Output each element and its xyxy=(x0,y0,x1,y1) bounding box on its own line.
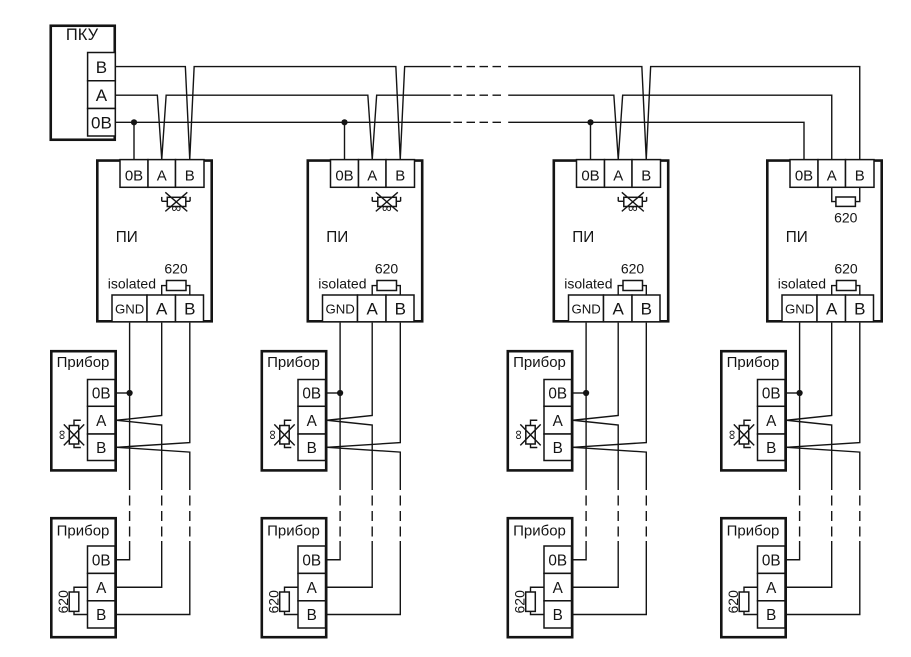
wire A from device 3.1 down xyxy=(573,420,618,490)
terminal PI1 bottom GND xyxy=(112,295,147,322)
wire B into device 2.2 xyxy=(326,541,401,615)
resistor PI3 terminator removed (crossed out, infinite) xyxy=(618,192,646,215)
svg-text:0В: 0В xyxy=(762,552,781,569)
terminal device 1.2 0V xyxy=(88,546,116,573)
svg-text:В: В xyxy=(185,167,195,184)
wire B from PI2 to device 2.1 xyxy=(327,323,400,448)
terminal PI4 bottom GND xyxy=(782,295,817,322)
svg-text:Прибор: Прибор xyxy=(57,354,110,371)
terminal PI3 top A xyxy=(605,160,633,188)
svg-text:Прибор: Прибор xyxy=(727,354,780,371)
wire A dashed section column 3 xyxy=(617,496,619,537)
svg-text:А: А xyxy=(766,413,777,430)
wire 0V stub device 2.1 xyxy=(326,392,341,394)
svg-text:В: В xyxy=(395,167,405,184)
svg-text:В: В xyxy=(395,299,406,318)
terminal device 4.1 B xyxy=(758,434,786,461)
svg-text:ПКУ: ПКУ xyxy=(66,26,99,44)
svg-text:Прибор: Прибор xyxy=(727,523,780,540)
wire B dashed section column 2 xyxy=(399,496,401,537)
wire GND/0V dashed section column 2 xyxy=(339,496,341,537)
svg-text:∞: ∞ xyxy=(724,430,739,440)
svg-text:620: 620 xyxy=(621,261,645,277)
svg-text:В: В xyxy=(641,167,651,184)
svg-text:А: А xyxy=(613,299,625,318)
svg-text:620: 620 xyxy=(164,261,188,277)
wire B from device 3.1 down xyxy=(573,447,646,490)
svg-text:0В: 0В xyxy=(125,167,143,184)
svg-text:В: В xyxy=(184,299,195,318)
wire B from PI3 to device 3.1 xyxy=(573,323,646,448)
wire 0V stub device 1.1 xyxy=(115,392,130,394)
wire 0V stub device 3.1 xyxy=(572,392,587,394)
svg-text:0В: 0В xyxy=(795,167,813,184)
terminal device 4.2 A xyxy=(758,573,786,600)
svg-text:ПИ: ПИ xyxy=(786,229,808,246)
wire A from device 2.1 down xyxy=(327,420,372,490)
resistor PI2 terminator removed (crossed out, infinite) xyxy=(372,192,400,215)
terminal device 2.2 B xyxy=(298,601,326,628)
svg-text:А: А xyxy=(553,580,564,597)
svg-text:isolated: isolated xyxy=(108,276,156,292)
svg-text:0В: 0В xyxy=(548,386,567,403)
svg-text:ПИ: ПИ xyxy=(326,229,348,246)
svg-text:isolated: isolated xyxy=(564,276,612,292)
wire B from device 4.1 down xyxy=(787,447,860,490)
resistor PI3 isolated side 620 Ohm xyxy=(618,261,646,295)
device Pribor 4.1 box xyxy=(721,351,785,470)
wire GND/0V from PI4 to device 1 xyxy=(799,323,801,393)
svg-text:Прибор: Прибор xyxy=(57,523,110,540)
resistor device 1.1 terminator removed (crossed out, infinite) xyxy=(54,420,84,447)
junction node 0V bus at PI2 xyxy=(341,119,347,125)
terminal PI1 bottom A xyxy=(147,295,176,322)
svg-text:В: В xyxy=(96,607,106,624)
terminal PI4 bottom B xyxy=(846,295,874,322)
wire A from PI2 to device 2.1 xyxy=(327,323,372,421)
svg-text:В: В xyxy=(855,167,865,184)
resistor device 3.2 terminator 620 Ohm xyxy=(512,587,544,614)
svg-text:620: 620 xyxy=(512,590,528,614)
wire A from PI4 to device 4.1 xyxy=(787,323,832,421)
wire A into device 1.2 xyxy=(115,541,162,587)
terminal device 3.1 A xyxy=(544,406,572,434)
svg-text:А: А xyxy=(96,580,107,597)
svg-text:А: А xyxy=(96,86,108,105)
svg-text:А: А xyxy=(826,299,838,318)
wire B dashed section column 3 xyxy=(645,496,647,537)
terminal PI1 top 0V xyxy=(120,160,148,188)
terminal PKU 0V xyxy=(88,109,116,137)
device Pribor 4.2 box xyxy=(721,518,785,637)
wire 0V drop to PI1 xyxy=(133,122,135,159)
wire A from device 1.1 down xyxy=(117,420,162,490)
wire GND/0V into device 2.2 xyxy=(326,541,341,560)
terminal device 4.1 0V xyxy=(758,380,786,407)
svg-text:Прибор: Прибор xyxy=(513,523,566,540)
interface converter PI1 box xyxy=(97,161,211,322)
wire B into device 4.2 xyxy=(785,541,860,615)
svg-text:620: 620 xyxy=(55,590,71,614)
terminal device 3.2 0V xyxy=(544,546,572,573)
svg-text:GND: GND xyxy=(571,302,600,317)
terminal PI4 top A xyxy=(818,160,846,188)
terminal PI1 top B xyxy=(176,160,205,188)
junction node 0V bus at PI1 xyxy=(131,119,137,125)
svg-text:А: А xyxy=(553,413,564,430)
terminal PI3 bottom B xyxy=(632,295,660,322)
wire GND/0V from PI1 to device 1 xyxy=(129,323,131,393)
terminal device 2.1 A xyxy=(298,406,326,434)
svg-text:В: В xyxy=(766,440,776,457)
svg-text:GND: GND xyxy=(325,302,354,317)
svg-text:isolated: isolated xyxy=(778,276,826,292)
terminal device 4.1 A xyxy=(758,406,786,434)
interface converter PI2 box xyxy=(308,161,422,322)
svg-text:А: А xyxy=(367,299,379,318)
resistor device 2.1 terminator removed (crossed out, infinite) xyxy=(265,420,295,447)
svg-text:620: 620 xyxy=(725,590,741,614)
terminal device 4.2 0V xyxy=(758,546,786,573)
wire GND/0V dashed section column 1 xyxy=(129,496,131,537)
terminal PI3 bottom GND xyxy=(569,295,604,322)
junction node 0V at device 4.1 xyxy=(797,390,803,396)
terminal PI3 top 0V xyxy=(577,160,605,188)
device Pribor 2.2 box xyxy=(262,518,326,637)
svg-text:А: А xyxy=(157,167,167,184)
wire A from PI1 to device 1.1 xyxy=(117,323,162,421)
wire B from PI4 to device 4.1 xyxy=(787,323,860,448)
wire GND/0V dashed section column 3 xyxy=(585,496,587,537)
svg-text:0В: 0В xyxy=(302,552,321,569)
terminal PI2 top A xyxy=(359,160,387,188)
svg-text:∞: ∞ xyxy=(511,430,526,440)
svg-text:∞: ∞ xyxy=(54,430,69,440)
wire bus A: PKU to PI1, PI2 with drops xyxy=(116,95,451,159)
svg-text:Прибор: Прибор xyxy=(267,354,320,371)
svg-text:В: В xyxy=(854,299,865,318)
svg-text:0В: 0В xyxy=(581,167,599,184)
terminal PI2 top 0V xyxy=(331,160,359,188)
wire 0V drop to PI2 xyxy=(344,122,346,159)
svg-text:0В: 0В xyxy=(302,386,321,403)
wire B into device 1.2 xyxy=(115,541,190,615)
wire GND/0V below device 1.1 xyxy=(129,393,131,490)
svg-text:Прибор: Прибор xyxy=(267,523,320,540)
terminal device 1.2 A xyxy=(88,573,116,600)
terminal device 4.2 B xyxy=(758,601,786,628)
svg-text:∞: ∞ xyxy=(171,201,181,216)
resistor device 3.1 terminator removed (crossed out, infinite) xyxy=(511,420,541,447)
resistor device 1.2 terminator 620 Ohm xyxy=(55,587,87,614)
terminal PI1 bottom B xyxy=(176,295,204,322)
wire A from PI3 to device 3.1 xyxy=(573,323,618,421)
svg-text:В: В xyxy=(96,440,106,457)
resistor device 2.2 terminator 620 Ohm xyxy=(266,587,298,614)
device Pribor 3.2 box xyxy=(508,518,572,637)
resistor PI4 terminator 620 Ohm at top xyxy=(832,187,860,225)
wire B into device 3.2 xyxy=(572,541,647,615)
terminal device 1.2 B xyxy=(88,601,116,628)
terminal PI3 top B xyxy=(632,160,661,188)
wire GND/0V from PI3 to device 1 xyxy=(585,323,587,393)
terminal PI4 top 0V xyxy=(790,160,818,188)
svg-text:0В: 0В xyxy=(335,167,353,184)
resistor device 4.2 terminator 620 Ohm xyxy=(725,587,757,614)
terminal PI2 bottom GND xyxy=(323,295,358,322)
svg-text:ПИ: ПИ xyxy=(116,229,138,246)
interface converter PI3 box xyxy=(554,161,668,322)
terminal device 3.1 0V xyxy=(544,380,572,407)
svg-text:А: А xyxy=(96,413,107,430)
wire A dashed section column 1 xyxy=(161,496,163,537)
junction node 0V bus at PI3 xyxy=(587,119,593,125)
wire GND/0V into device 4.2 xyxy=(785,541,800,560)
junction node 0V at device 3.1 xyxy=(583,390,589,396)
wire GND/0V into device 3.2 xyxy=(572,541,587,560)
wire GND/0V below device 4.1 xyxy=(799,393,801,490)
svg-text:∞: ∞ xyxy=(265,430,280,440)
svg-text:∞: ∞ xyxy=(628,201,638,216)
svg-text:А: А xyxy=(367,167,377,184)
resistor PI1 isolated side 620 Ohm xyxy=(162,261,190,295)
svg-text:В: В xyxy=(307,607,317,624)
terminal PI4 top B xyxy=(846,160,875,188)
device Pribor 3.1 box xyxy=(508,351,572,470)
svg-text:А: А xyxy=(613,167,623,184)
wire GND/0V from PI2 to device 1 xyxy=(339,323,341,393)
svg-text:А: А xyxy=(827,167,837,184)
wire B from PI1 to device 1.1 xyxy=(117,323,190,448)
wire A from device 4.1 down xyxy=(787,420,832,490)
device Pribor 1.1 box xyxy=(51,351,115,470)
wire bus B dashed continuation xyxy=(454,66,502,68)
terminal device 2.2 0V xyxy=(298,546,326,573)
svg-text:0В: 0В xyxy=(92,552,111,569)
terminal device 3.1 B xyxy=(544,434,572,461)
wire A dashed section column 2 xyxy=(371,496,373,537)
wire bus B: to PI3 and PI4 xyxy=(508,67,860,160)
wire A into device 4.2 xyxy=(785,541,832,587)
svg-text:В: В xyxy=(307,440,317,457)
terminal device 3.2 A xyxy=(544,573,572,600)
svg-text:А: А xyxy=(307,413,318,430)
terminal device 3.2 B xyxy=(544,601,572,628)
terminal device 2.2 A xyxy=(298,573,326,600)
terminal PI2 bottom B xyxy=(386,295,414,322)
terminal PI1 top A xyxy=(148,160,176,188)
control panel PKU box xyxy=(51,26,115,140)
svg-text:620: 620 xyxy=(266,590,282,614)
svg-text:В: В xyxy=(553,607,563,624)
wire GND/0V into device 1.2 xyxy=(115,541,130,560)
svg-text:620: 620 xyxy=(834,209,858,225)
wire bus 0V: PKU to middle xyxy=(116,121,451,123)
terminal device 1.1 B xyxy=(88,434,116,461)
wire GND/0V below device 3.1 xyxy=(585,393,587,490)
svg-text:620: 620 xyxy=(375,261,399,277)
wire 0V drop to PI3 xyxy=(590,122,592,159)
terminal PI2 top B xyxy=(386,160,415,188)
terminal device 1.1 A xyxy=(88,406,116,434)
junction node 0V at device 1.1 xyxy=(127,390,133,396)
svg-text:GND: GND xyxy=(785,302,814,317)
wire A into device 2.2 xyxy=(326,541,373,587)
wire bus 0V: middle to PI4 xyxy=(508,122,804,159)
resistor device 4.1 terminator removed (crossed out, infinite) xyxy=(724,420,754,447)
wire GND/0V dashed section column 4 xyxy=(799,496,801,537)
interface converter PI4 box xyxy=(767,161,881,322)
wire B dashed section column 1 xyxy=(189,496,191,537)
wire GND/0V below device 2.1 xyxy=(339,393,341,490)
terminal device 2.1 0V xyxy=(298,380,326,407)
resistor PI2 isolated side 620 Ohm xyxy=(372,261,400,295)
wire bus 0V dashed continuation xyxy=(454,121,502,123)
terminal PI3 bottom A xyxy=(604,295,633,322)
wire bus A dashed continuation xyxy=(454,94,502,96)
resistor PI1 terminator removed (crossed out, infinite) xyxy=(162,192,190,215)
svg-text:ПИ: ПИ xyxy=(572,229,594,246)
wire B from device 1.1 down xyxy=(117,447,190,490)
wire A dashed section column 4 xyxy=(831,496,833,537)
device Pribor 1.2 box xyxy=(51,518,115,637)
wire B from device 2.1 down xyxy=(327,447,400,490)
svg-text:isolated: isolated xyxy=(318,276,366,292)
terminal PKU A xyxy=(88,81,116,109)
wire bus A: to PI3 and PI4 xyxy=(508,95,832,159)
wire B dashed section column 4 xyxy=(859,496,861,537)
svg-text:0В: 0В xyxy=(91,114,112,133)
terminal PI4 bottom A xyxy=(817,295,846,322)
terminal PKU B xyxy=(88,53,116,81)
terminal PI2 bottom A xyxy=(358,295,387,322)
resistor PI4 isolated side 620 Ohm xyxy=(832,261,860,295)
svg-text:В: В xyxy=(766,607,776,624)
svg-text:В: В xyxy=(641,299,652,318)
wire A into device 3.2 xyxy=(572,541,619,587)
svg-text:0В: 0В xyxy=(762,386,781,403)
svg-text:∞: ∞ xyxy=(382,201,392,216)
terminal device 2.1 B xyxy=(298,434,326,461)
svg-text:А: А xyxy=(766,580,777,597)
svg-text:В: В xyxy=(553,440,563,457)
svg-text:GND: GND xyxy=(115,302,144,317)
svg-text:0В: 0В xyxy=(92,386,111,403)
device Pribor 2.1 box xyxy=(262,351,326,470)
svg-text:Прибор: Прибор xyxy=(513,354,566,371)
wire 0V stub device 4.1 xyxy=(785,392,800,394)
wire bus B: PKU to PI1 with drop xyxy=(116,67,451,160)
terminal device 1.1 0V xyxy=(88,380,116,407)
svg-text:0В: 0В xyxy=(548,552,567,569)
svg-text:В: В xyxy=(96,58,107,77)
junction node 0V at device 2.1 xyxy=(337,390,343,396)
svg-text:620: 620 xyxy=(834,261,858,277)
svg-text:А: А xyxy=(156,299,168,318)
svg-text:А: А xyxy=(307,580,318,597)
